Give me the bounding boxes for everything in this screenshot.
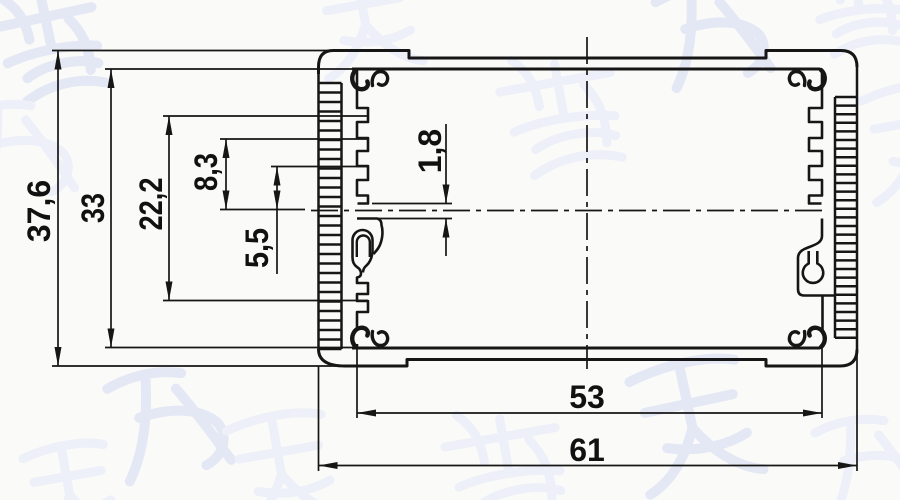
bottom wall inner surface [352, 347, 820, 350]
bottom-left clip hook [352, 328, 387, 347]
top wall inner surface [352, 68, 820, 71]
dimension line 61 [319, 465, 858, 467]
left heat-sink fin band [319, 74, 342, 349]
dimension line 22,2 [168, 116, 170, 301]
top-right clip hook [789, 70, 824, 89]
svg-text:5,5: 5,5 [239, 228, 275, 268]
top-left outer corner arc [319, 51, 334, 75]
arrowheads [55, 51, 858, 470]
svg-text:61: 61 [569, 432, 605, 468]
top-left clip hook [352, 70, 368, 89]
right heat-sink fin band [835, 67, 857, 350]
left screw channel opening [357, 236, 370, 258]
left boss stem and lower ribs [353, 258, 369, 332]
dimension line 53 [357, 412, 822, 414]
top-right outer corner arc [841, 51, 857, 68]
extension lines left dims [52, 50, 333, 52]
dimension line 33 [110, 69, 112, 348]
left screw boss tube [353, 230, 373, 258]
left wall face below hook [356, 344, 359, 348]
top wall outer surface with step [333, 51, 841, 59]
right wall inner face, card-guide ribs [809, 69, 822, 204]
vertical centreline [586, 37, 588, 369]
dimension line 5,5 with leader below [276, 167, 278, 275]
right wall face below hook [821, 344, 824, 348]
dimension line 1,8 (two segments) [445, 124, 447, 256]
svg-text:22,2: 22,2 [133, 178, 169, 231]
bottom wall outer surface with recess [319, 349, 858, 366]
left wall inner face, card-guide ribs [357, 69, 368, 204]
svg-text:33: 33 [75, 193, 111, 223]
svg-text:53: 53 [569, 379, 605, 415]
horizontal centreline [311, 210, 826, 212]
53 extension lines [357, 348, 822, 418]
right screw boss body [798, 219, 835, 332]
dimension line 37,6 [57, 51, 59, 367]
1,8 extension lines [372, 204, 452, 219]
svg-text:8,3: 8,3 [188, 153, 224, 191]
61 extension lines [319, 350, 858, 472]
bottom-right clip hook [789, 328, 824, 347]
svg-text:1,8: 1,8 [412, 129, 448, 173]
dimension line 8,3 [225, 139, 227, 210]
right screw channel (keyhole) [803, 251, 823, 283]
left screw boss shoulder [357, 219, 382, 255]
svg-text:37,6: 37,6 [21, 180, 57, 242]
